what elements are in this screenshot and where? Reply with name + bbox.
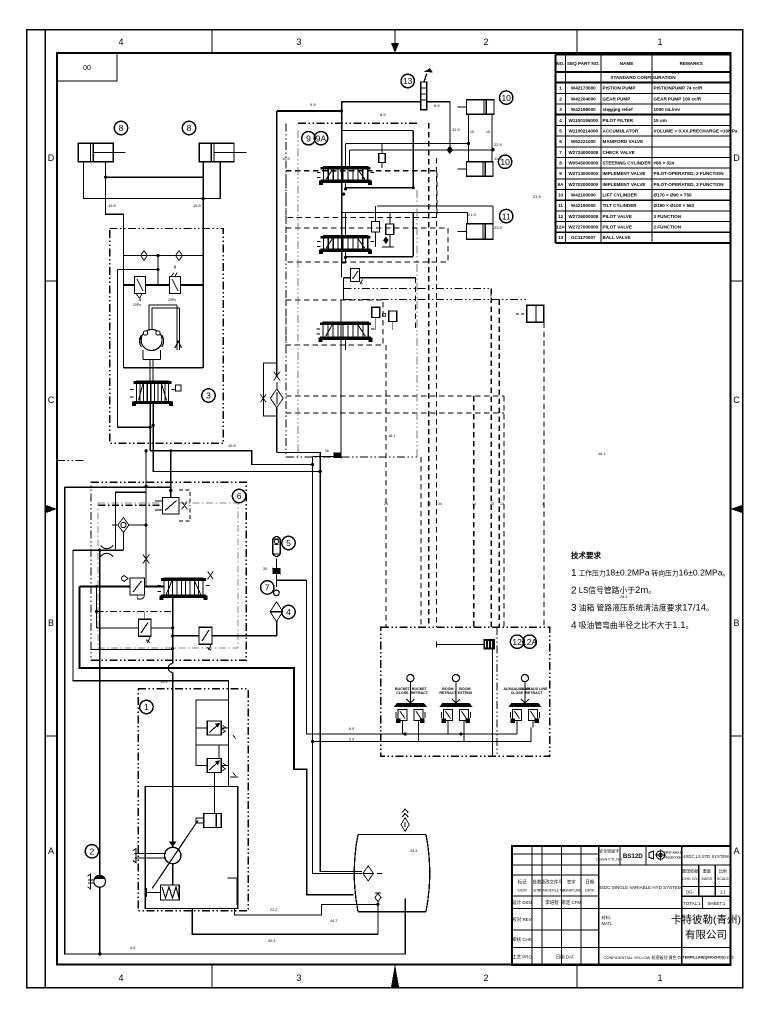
wire steering drain via left <box>118 426 151 428</box>
pilot hose dashed vertical h <box>420 457 422 627</box>
wire gear pump suction <box>99 887 101 954</box>
wire tilt piping <box>468 206 494 224</box>
svg-text:设计 DSN: 设计 DSN <box>512 899 531 906</box>
svg-text:B: B <box>48 618 54 628</box>
svg-text:9: 9 <box>306 133 311 143</box>
svg-text:NO.: NO. <box>556 61 564 66</box>
svg-text:7: 7 <box>265 583 270 593</box>
manifold enclosure box 6 <box>91 482 246 660</box>
svg-text:#80 × 324: #80 × 324 <box>654 161 675 166</box>
wire tilt A line <box>377 205 493 207</box>
svg-text:14.9: 14.9 <box>160 680 167 684</box>
pilot valve enclosure 12/12A <box>381 627 550 756</box>
svg-text:PILOT-OPERATED, 3 FUNCTION: PILOT-OPERATED, 3 FUNCTION <box>654 182 725 187</box>
svg-text:10: 10 <box>500 157 510 167</box>
svg-text:PISTION PUMP: PISTION PUMP <box>603 86 636 91</box>
implement region dashdotdot left gray vertical <box>297 130 299 457</box>
svg-text:9.9: 9.9 <box>310 102 316 107</box>
svg-text:CONFIDENTIAL YELLOW 机密级别 黄色: CONFIDENTIAL YELLOW 机密级别 黄色 <box>604 954 677 960</box>
svg-text:CHECK VALVE: CHECK VALVE <box>603 150 635 155</box>
wire valve to control piston <box>214 745 219 814</box>
svg-text:W1100214000: W1100214000 <box>568 128 598 133</box>
wire relief-2 / filter return line thick <box>173 635 199 637</box>
wire steering supply CF down to manifold <box>145 451 147 487</box>
svg-text:2.9: 2.9 <box>349 738 354 742</box>
svg-text:SIGNATURE: SIGNATURE <box>561 889 582 893</box>
wire check to node <box>137 524 146 526</box>
svg-text:12: 12 <box>558 214 564 219</box>
svg-text:10.9: 10.9 <box>282 156 291 161</box>
svg-text:重量: 重量 <box>703 868 711 874</box>
svg-text:BS12D: BS12D <box>623 853 643 860</box>
svg-text:4.9: 4.9 <box>130 946 135 950</box>
title block <box>512 846 741 965</box>
svg-text:4: 4 <box>542 502 544 506</box>
svg-text:16.9: 16.9 <box>228 443 237 448</box>
svg-text:比例: 比例 <box>719 868 727 874</box>
wire implement relief line <box>344 277 351 279</box>
svg-text:李培智: 李培智 <box>545 899 559 906</box>
zone number labels <box>118 37 662 983</box>
svg-text:GEAR PUMP: GEAR PUMP <box>603 96 631 101</box>
aux valves small <box>372 307 397 330</box>
wire pump case drain <box>192 908 378 934</box>
wire spool1 tank link <box>346 130 414 187</box>
svg-text:24: 24 <box>384 502 388 506</box>
svg-text:EXTEND: EXTEND <box>458 691 473 695</box>
check valve diamond left <box>141 251 148 261</box>
svg-text:31.9: 31.9 <box>452 127 461 132</box>
svg-text:2: 2 <box>483 973 488 983</box>
svg-text:13: 13 <box>558 235 564 240</box>
pilot hose dashed vertical b <box>428 123 430 627</box>
svg-text:2 FUNCTION: 2 FUNCTION <box>654 225 682 230</box>
wire restrictor line <box>73 549 124 551</box>
svg-text:12A: 12A <box>556 225 565 230</box>
svg-text:9: 9 <box>559 171 562 176</box>
svg-text:MATL: MATL <box>602 921 614 926</box>
wire cylinder outer link <box>83 162 220 199</box>
label circle 7 <box>261 581 274 594</box>
svg-text:2 LS信号管路小于2m。: 2 LS信号管路小于2m。 <box>571 585 656 597</box>
svg-text:卡特彼勒(青州): 卡特彼勒(青州) <box>671 913 741 926</box>
svg-text:D: D <box>733 153 740 163</box>
wire gerotor top loop <box>149 305 180 330</box>
priority pilot dash-dot <box>97 610 173 612</box>
check valve line <box>124 255 204 257</box>
svg-text:12A: 12A <box>522 637 537 647</box>
svg-text:W42173000: W42173000 <box>571 86 596 91</box>
wire pump outlet lower <box>235 904 378 915</box>
check valve diamond right <box>176 251 183 261</box>
svg-text:材料,: 材料, <box>602 914 612 921</box>
label circle 2 <box>85 845 98 858</box>
wire pilot supply bus <box>307 733 517 735</box>
pilot hose dashed stub <box>414 278 416 330</box>
label circle 10 upper <box>500 91 513 104</box>
label circle 10 lower <box>498 155 511 168</box>
svg-text:15.9: 15.9 <box>193 203 202 208</box>
wire T return to center vertical <box>313 455 334 457</box>
load check orifice <box>379 143 386 168</box>
svg-text:FIRST ANGLE: FIRST ANGLE <box>664 851 682 855</box>
svg-text:6.9: 6.9 <box>349 727 354 731</box>
flow restrictor arcs <box>101 546 114 557</box>
svg-text:00: 00 <box>83 65 91 72</box>
label circle 1 <box>140 700 153 713</box>
pilot dash-dot to solenoid valve <box>98 504 162 506</box>
svg-text:2: 2 <box>90 847 95 857</box>
svg-text:2: 2 <box>483 37 488 47</box>
svg-text:12: 12 <box>427 502 431 506</box>
svg-text:PILOT VALVE: PILOT VALVE <box>603 225 632 230</box>
svg-text:RETRACT: RETRACT <box>411 691 429 695</box>
svg-text:3 FUNCTION: 3 FUNCTION <box>654 214 682 219</box>
priority spool valve <box>164 578 203 597</box>
svg-text:3: 3 <box>296 973 301 983</box>
pilot hose dashed vertical f <box>498 300 500 627</box>
svg-text:34.3: 34.3 <box>410 849 417 853</box>
wire supply feed into manifold thick <box>65 486 171 488</box>
relief valve line thick <box>124 284 204 286</box>
svg-text:MANIFORD VALVE: MANIFORD VALVE <box>603 139 644 144</box>
wire suction into tank <box>377 872 382 874</box>
wire main line through manifold thick <box>79 586 130 588</box>
svg-text:2a.4: 2a.4 <box>608 109 615 113</box>
wire ball valve outlet <box>427 101 450 103</box>
zone letter labels <box>48 153 741 856</box>
steering cylinder 8 (left) <box>78 143 125 161</box>
pilot hose dashed horizontal lower <box>286 412 504 414</box>
svg-text:MASS: MASS <box>702 877 713 881</box>
wire priority P to pump <box>172 597 174 663</box>
svg-text:RETRACT: RETRACT <box>525 691 543 695</box>
steering unit enclosure box 3 <box>110 229 224 444</box>
wire LS drain <box>118 270 151 428</box>
svg-text:4SDC LS STD SYSTEM: 4SDC LS STD SYSTEM <box>683 854 729 859</box>
00 reference box top-left <box>57 53 117 81</box>
accumulator 5 <box>273 537 281 557</box>
pump casing <box>145 787 238 909</box>
svg-text:更改依据: 更改依据 <box>682 868 698 874</box>
label circle 13 <box>401 74 414 87</box>
pilot hose dashed horizontal upper <box>286 395 504 397</box>
manifold relief valve 1 <box>138 611 151 642</box>
pump spring return <box>146 885 179 900</box>
svg-text:GC1170007: GC1170007 <box>571 235 596 240</box>
wire aux out <box>345 339 347 350</box>
solenoid relief valve <box>155 490 190 521</box>
pilot hose dashed vertical a <box>385 345 387 627</box>
recirculation line with arrow <box>177 305 180 350</box>
pilot hose dashed vertical f2 <box>503 396 505 627</box>
wire pilot return bus <box>313 728 532 742</box>
svg-text:CLOSE: CLOSE <box>511 691 524 695</box>
svg-text:DSGN CTL NO: DSGN CTL NO <box>596 858 622 862</box>
svg-text:6.9: 6.9 <box>434 103 440 108</box>
hydraulic tank <box>354 834 430 911</box>
svg-text:标记: 标记 <box>518 879 527 886</box>
svg-text:W2727000000: W2727000000 <box>568 225 598 230</box>
svg-text:16.1: 16.1 <box>598 452 605 456</box>
pump outlet port step <box>228 878 237 905</box>
svg-text:IMPLEMENT VALVE: IMPLEMENT VALVE <box>603 182 646 187</box>
implement region dashdotdot bottom <box>286 456 417 458</box>
svg-text:22.9: 22.9 <box>494 142 503 147</box>
relief valve right <box>170 265 181 293</box>
wire right cylinder to steering unit <box>202 162 204 229</box>
svg-text:20Ps: 20Ps <box>168 298 176 302</box>
implement inlet riser thick <box>341 102 343 263</box>
implement region dashdotdot right vertical <box>416 190 418 457</box>
svg-text:4: 4 <box>286 607 291 617</box>
svg-text:有限公司: 有限公司 <box>685 928 727 941</box>
tank return diffuser <box>375 893 381 934</box>
svg-text:4 吸油管弯曲半径之比不大于1.1。: 4 吸油管弯曲半径之比不大于1.1。 <box>571 620 693 632</box>
wire control valve piping <box>196 689 238 787</box>
svg-text:4: 4 <box>118 37 123 47</box>
svg-text:PILOT FILTER: PILOT FILTER <box>603 118 634 123</box>
steering block right side <box>202 229 204 368</box>
pilot hose dashed vertical c <box>436 158 438 627</box>
wire cylinder inner link <box>106 162 204 178</box>
label circle 11 <box>500 209 513 222</box>
wire pilot supply thick <box>277 579 307 581</box>
svg-text:PILOT VALVE: PILOT VALVE <box>603 214 632 219</box>
wire steering tank line lower <box>153 443 320 471</box>
svg-text:20Ps: 20Ps <box>133 303 141 307</box>
relief valve left <box>134 277 145 301</box>
svg-text:审定 CFM: 审定 CFM <box>562 899 582 906</box>
wire accumulator drop <box>276 559 278 587</box>
wire supply to ball valve line <box>342 101 421 103</box>
wire harness drop <box>491 650 493 757</box>
svg-text:PISTIONPUMP 74 cc/R: PISTIONPUMP 74 cc/R <box>654 86 704 91</box>
pump control valve upper <box>207 721 221 735</box>
svg-text:NAME: NAME <box>620 61 634 66</box>
svg-text:23: 23 <box>490 502 494 506</box>
svg-text:B: B <box>733 618 739 628</box>
svg-text:W42100000: W42100000 <box>571 193 596 198</box>
svg-text:9A: 9A <box>316 133 327 143</box>
implement inner box top <box>342 129 414 131</box>
svg-text:30.3: 30.3 <box>268 939 275 943</box>
pilot hose dashed vertical d <box>473 396 475 627</box>
svg-text:28.3: 28.3 <box>620 595 627 599</box>
svg-text:11: 11 <box>502 211 511 221</box>
node diamond junction ball valve drop <box>449 102 451 150</box>
technical notes text <box>571 550 729 632</box>
svg-text:5: 5 <box>286 538 291 548</box>
check valve 7 ball <box>274 590 280 596</box>
svg-text:2: 2 <box>559 96 562 101</box>
svg-text:11.9: 11.9 <box>494 156 502 161</box>
wire CF to priority spool <box>145 559 147 587</box>
svg-text:6: 6 <box>559 139 562 144</box>
svg-text:3: 3 <box>206 391 211 401</box>
control piston <box>196 814 222 828</box>
svg-text:DG-: DG- <box>686 890 694 895</box>
relief valve implement inlet <box>351 269 363 284</box>
label circle 9A <box>314 132 327 145</box>
label circle 8 (right) <box>182 121 195 134</box>
tilt cylinder 11 <box>458 224 494 240</box>
svg-text:21.9: 21.9 <box>468 212 477 217</box>
label circle 6 <box>232 489 245 502</box>
svg-text:CHG LVL: CHG LVL <box>682 877 698 881</box>
svg-text:W2724000008: W2724000008 <box>568 150 598 155</box>
pilot joystick valve <box>439 675 472 728</box>
svg-text:18.1: 18.1 <box>388 434 395 438</box>
svg-text:10: 10 <box>501 93 511 103</box>
svg-text:SCALE: SCALE <box>717 877 730 881</box>
svg-text:ACCUMULATOR: ACCUMULATOR <box>603 128 639 133</box>
wire LS to pump <box>73 550 229 721</box>
check valve with ball in manifold <box>112 518 137 533</box>
wire pump to spring box <box>172 864 174 885</box>
svg-text:SHEET:1: SHEET:1 <box>707 901 725 906</box>
svg-text:技术要求: 技术要求 <box>571 550 601 560</box>
wire lift A line <box>346 142 469 144</box>
svg-text:10: 10 <box>558 193 564 198</box>
steering block left side <box>123 229 125 368</box>
svg-text:A: A <box>733 846 739 856</box>
wire filter to return <box>276 408 278 453</box>
wire center return vertical to tank <box>313 456 362 873</box>
wire gear pump outlet <box>99 550 101 876</box>
LS line in steering unit <box>118 269 158 271</box>
label circle 5 <box>282 536 295 549</box>
drive shaft <box>133 849 166 863</box>
svg-text:STANDARD CONFIGURATION: STANDARD CONFIGURATION <box>610 75 676 80</box>
label circle 12 <box>510 635 523 648</box>
svg-text:W0545000000: W0545000000 <box>568 161 598 166</box>
svg-text:GEAR PUMP 100 cc/R: GEAR PUMP 100 cc/R <box>654 96 702 101</box>
pilot hose dashed vertical g <box>543 322 545 627</box>
svg-text:6: 6 <box>237 491 242 501</box>
svg-text:1:1: 1:1 <box>720 890 726 895</box>
pilot filter with bypass <box>261 363 284 416</box>
implement enclosure dash-dot top <box>298 122 419 124</box>
svg-text:SEQ PART NO.: SEQ PART NO. <box>567 61 600 66</box>
svg-text:22.2: 22.2 <box>270 908 277 912</box>
svg-text:1: 1 <box>144 702 149 712</box>
wire pilot supply to pilot valves <box>307 580 381 734</box>
pump control valve lower <box>207 759 221 773</box>
label circle 3 <box>202 389 215 402</box>
wire main supply riser <box>276 111 278 376</box>
node check line junction <box>156 254 159 257</box>
wire main pressure line to implement valve thick <box>277 110 342 112</box>
wire gerotor to steering spool <box>150 359 153 381</box>
wire joystick ports to bus <box>402 728 517 742</box>
pump flow arrow <box>170 842 176 846</box>
svg-text:PROJECTION: PROJECTION <box>664 856 682 860</box>
pressure reducing valve <box>122 576 145 600</box>
variable piston pump circle <box>165 847 181 863</box>
svg-text:13: 13 <box>403 76 413 86</box>
wire relief feed vertical <box>96 587 98 628</box>
isolator valve on T return <box>334 453 341 458</box>
wire relief line 1 <box>97 627 139 629</box>
svg-text:审核 CHK: 审核 CHK <box>512 936 531 943</box>
wire lift cylinder links <box>468 114 470 162</box>
svg-text:LIFT CYLINDER: LIFT CYLINDER <box>603 193 638 198</box>
ball valve 13 <box>421 69 432 110</box>
wire filter return line <box>277 452 362 871</box>
svg-text:8.9: 8.9 <box>380 112 386 117</box>
label circle 8 (left) <box>114 121 127 134</box>
svg-text:更改文件号: 更改文件号 <box>541 879 564 886</box>
svg-text:15: 15 <box>470 130 474 134</box>
swashplate arm <box>152 821 198 889</box>
node spool1 out <box>344 187 347 190</box>
svg-text:4: 4 <box>118 973 123 983</box>
svg-text:W42190000: W42190000 <box>571 203 596 208</box>
pump enclosure box 1 <box>138 689 248 911</box>
implement inner box 2 right side <box>412 212 414 256</box>
quick coupler <box>516 305 544 322</box>
svg-text:7: 7 <box>559 150 562 155</box>
svg-text:CATERPILLAR(QINGZHOU) LTD.: CATERPILLAR(QINGZHOU) LTD. <box>677 956 734 960</box>
wire implement T down <box>341 263 343 278</box>
implement spool valve 9A (tilt) <box>323 236 367 252</box>
svg-text:W1100155000: W1100155000 <box>568 118 598 123</box>
parts list table <box>555 55 738 243</box>
pilot joystick valve <box>394 675 427 728</box>
svg-text:REMARKS: REMARKS <box>680 61 703 66</box>
wire lift B line <box>349 149 493 151</box>
spring right of priority spool <box>208 571 214 579</box>
wire steering spool to supply <box>150 404 153 451</box>
harness connector <box>483 639 495 650</box>
svg-text:W2726000008: W2726000008 <box>568 214 598 219</box>
svg-text:8: 8 <box>187 123 192 133</box>
svg-text:5: 5 <box>559 128 562 133</box>
svg-text:Ø190 × Ø100 × 563: Ø190 × Ø100 × 563 <box>654 203 695 208</box>
pilot internal divider dash-dot <box>496 627 498 756</box>
svg-text:9A: 9A <box>558 182 565 187</box>
svg-text:工艺 PRC: 工艺 PRC <box>512 955 531 960</box>
gear pump shaft <box>88 874 94 889</box>
svg-text:C: C <box>48 395 55 405</box>
svg-text:W42198000: W42198000 <box>571 107 596 112</box>
svg-text:1000 mL/rev: 1000 mL/rev <box>654 107 681 112</box>
implement spool valve aux <box>323 322 368 339</box>
wire tilt B line <box>346 211 468 213</box>
svg-text:Ø170 × Ø90 × 750: Ø170 × Ø90 × 750 <box>654 193 693 198</box>
wire tank line lower <box>91 648 173 650</box>
svg-text:W62221000: W62221000 <box>571 139 596 144</box>
svg-text:IMPLEMENT VALVE: IMPLEMENT VALVE <box>603 171 646 176</box>
wire steering return to tank staircase <box>150 451 312 465</box>
wire main left loop vertical <box>65 487 405 954</box>
svg-text:1: 1 <box>657 37 662 47</box>
implement left dash-dot-dot vertical <box>285 123 287 457</box>
svg-text:TILT CYLINDER: TILT CYLINDER <box>603 203 638 208</box>
label circle 12A <box>523 635 536 648</box>
svg-text:W2702000000: W2702000000 <box>568 182 598 187</box>
tank breather <box>401 809 409 831</box>
svg-text:14: 14 <box>472 502 476 506</box>
svg-text:D: D <box>48 153 55 163</box>
svg-text:12: 12 <box>512 637 522 647</box>
svg-text:校对 REV: 校对 REV <box>512 916 531 923</box>
label circle 9 <box>302 132 315 145</box>
pilot joystick valve <box>508 675 541 728</box>
svg-text:4: 4 <box>559 118 562 123</box>
implement inner box 2 <box>342 212 346 236</box>
